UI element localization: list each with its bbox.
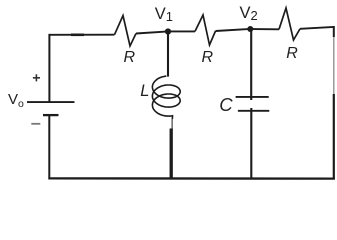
inductor L top lead xyxy=(167,32,169,77)
battery long plate xyxy=(27,101,75,103)
capacitor C top plate xyxy=(236,96,269,98)
wire left vertical upper xyxy=(48,34,50,102)
wire node V1 to R2 xyxy=(170,30,195,32)
wire R2 to node V2 xyxy=(216,29,249,31)
wire bottom horizontal xyxy=(48,177,334,180)
node V1 xyxy=(165,28,171,34)
resistor R1 xyxy=(115,16,137,47)
capacitor C top lead xyxy=(250,29,252,100)
label V1 xyxy=(155,5,173,24)
capacitor C bottom plate xyxy=(238,110,269,112)
wire overlap blip xyxy=(71,33,84,36)
wire left vertical lower xyxy=(48,115,50,179)
resistor R3 xyxy=(279,8,300,40)
inductor bottom lead thick xyxy=(170,129,173,180)
minus sign xyxy=(31,123,40,125)
battery V0 xyxy=(27,74,75,124)
wire node V2 to R3 xyxy=(253,28,280,30)
node V2 xyxy=(247,26,253,32)
plus sign xyxy=(33,74,40,81)
label C xyxy=(219,94,232,116)
label R2 xyxy=(202,49,214,67)
wire right vertical xyxy=(333,26,335,37)
resistor R2 xyxy=(195,15,216,45)
inductor exit lead thin gray xyxy=(171,119,173,129)
label V0 xyxy=(8,91,24,110)
wire top-left horizontal xyxy=(49,34,114,36)
label R3 xyxy=(286,45,298,63)
battery short plate xyxy=(43,114,59,116)
label R1 xyxy=(124,49,136,67)
label L xyxy=(140,82,149,101)
wire R3 to top-right corner xyxy=(300,27,334,29)
wire R1 to node V1 xyxy=(136,32,166,34)
inductor L coil xyxy=(152,76,180,129)
label V2 xyxy=(240,4,258,23)
capacitor C bottom lead xyxy=(250,108,252,179)
